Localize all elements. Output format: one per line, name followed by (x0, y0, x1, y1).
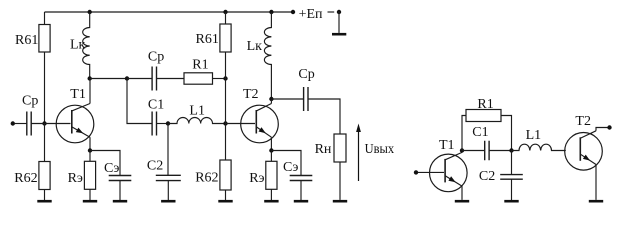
svg-text:Uвых: Uвых (365, 142, 395, 157)
wire: T2 eq emitter to ground (595, 165, 597, 200)
terminal: -Ep negative (337, 10, 341, 14)
junction: rail / Lk2 (269, 10, 273, 14)
wire: R1 to T2 base column (213, 78, 226, 80)
wire: T2 emitter node to Ce2 (271, 151, 301, 176)
wire: C2 node down (167, 124, 169, 176)
junction: T1 eq collector node (460, 148, 464, 152)
svg-text:Cр: Cр (298, 67, 314, 82)
junction: C1/L1/C2 node (166, 121, 170, 125)
wire: R61-2 bottom through base node (225, 52, 227, 160)
transistor T1 (equivalent) (430, 138, 468, 192)
svg-text:L1: L1 (526, 128, 542, 143)
svg-text:T1: T1 (70, 87, 86, 102)
ground (Re stage 2) (264, 189, 278, 201)
capacitor C2 (equivalent) (479, 169, 523, 184)
capacitor Cp (interstage) (148, 50, 164, 91)
capacitor C1 (equivalent) (472, 125, 489, 160)
wire: Cp to T1 base (31, 123, 70, 125)
svg-text:Rэ: Rэ (68, 171, 83, 186)
svg-text:C1: C1 (472, 125, 488, 140)
resistor Re (stage 1) (68, 161, 96, 189)
svg-text:T2: T2 (575, 114, 591, 129)
wire: T1 emitter down to node (89, 137, 91, 150)
ground (R62 stage 1) (37, 190, 51, 202)
wire: node down to C2 eq (511, 151, 513, 175)
svg-text:R61: R61 (196, 32, 219, 47)
wire: T1 eq emitter to ground (461, 186, 463, 200)
wire: T1 eq collector to node (461, 151, 463, 153)
junction: T1 collector node (88, 76, 92, 80)
wire: input to T1 base (equivalent) (418, 171, 444, 173)
capacitor C2 (shunt) (147, 159, 181, 181)
junction: T2 collector node (269, 97, 273, 101)
wire: T1 collector up to node (89, 79, 91, 104)
svg-text:T1: T1 (439, 138, 455, 153)
wire: C1 eq to L1 node (489, 150, 511, 152)
wire: T2 emitter down to node (270, 137, 272, 150)
wire: negative supply stub (328, 11, 335, 13)
ground (supply negative) (332, 33, 346, 36)
ground (Rn load) (333, 200, 347, 203)
resistor Rn (load) (315, 134, 346, 162)
resistor R61 (stage 1) (15, 25, 50, 53)
svg-text:C2: C2 (479, 169, 495, 184)
svg-text:Lк: Lк (247, 39, 263, 54)
capacitor Ce (stage 2) (283, 160, 312, 181)
svg-text:Cэ: Cэ (283, 160, 298, 175)
resistor R1 (interstage) (184, 58, 213, 85)
resistor R61 (stage 2) (196, 24, 232, 52)
ground (R62 stage 2) (218, 190, 232, 201)
wire: Cp out to Rn (308, 99, 340, 134)
ground (T1 equivalent emitter) (455, 200, 469, 203)
junction: base column / R1 (223, 76, 227, 80)
terminal: input (11, 121, 15, 125)
svg-text:R61: R61 (15, 33, 38, 48)
svg-text:Cр: Cр (22, 93, 38, 108)
ground (C2 equivalent) (504, 179, 518, 201)
ground (T2 equivalent emitter) (589, 200, 603, 203)
svg-text:R62: R62 (14, 171, 37, 186)
wire: collector node up to R1 eq (462, 116, 466, 151)
junction: T1 base node (42, 121, 46, 125)
terminal: output (equivalent) (607, 125, 611, 129)
capacitor Cp (output coupling) (298, 67, 314, 111)
inductor Lk (stage 1) (70, 12, 90, 78)
wire: C1 to C2 node (157, 123, 169, 125)
junction: network split node (125, 76, 129, 80)
junction: rail / R61 stage2 (223, 10, 227, 14)
arrow: Uout output voltage (356, 124, 394, 182)
svg-text:Cр: Cр (148, 50, 164, 65)
wire: +Ep supply rail (45, 11, 294, 13)
wire: Cp mid to R1 (157, 78, 185, 80)
wire: split node down to C1 (127, 79, 152, 124)
wire: base column to T2 base (226, 123, 256, 125)
wire: collector node to network split (90, 78, 127, 80)
wire: split node to Cp mid (127, 78, 152, 80)
ground (Ce stage 2) (294, 181, 308, 202)
wire: emitter node to Ce (90, 151, 120, 176)
svg-text:Lк: Lк (70, 38, 86, 53)
transistor T2 (equivalent) (565, 114, 603, 170)
svg-text:Rн: Rн (315, 142, 332, 157)
junction: base column / L1 (223, 121, 227, 125)
svg-text:R1: R1 (477, 97, 493, 112)
svg-text:R1: R1 (192, 58, 208, 73)
junction: L1/C2 node (equivalent) (509, 148, 513, 152)
wire: input terminal to Cp (15, 123, 27, 125)
terminal: input (equivalent circuit) (414, 170, 418, 174)
svg-text:Rэ: Rэ (249, 171, 264, 186)
wire: rail corner into R61 (44, 12, 46, 25)
junction: T1 emitter node (88, 148, 92, 152)
transistor T2 (stage 2) (241, 87, 279, 143)
wire: negative terminal down to ground (338, 12, 340, 33)
wire: R61 bottom to T1 base node (44, 52, 46, 124)
wire: R1 eq to L1 node (501, 116, 512, 151)
svg-text:Cэ: Cэ (104, 161, 119, 176)
wire: T2 emitter node to Re2 (270, 151, 272, 162)
ground (Re stage 1) (83, 189, 97, 201)
wire: T2 collector up to node (270, 99, 272, 104)
wire: collector node to C1 eq (462, 150, 485, 152)
wire: Rn bottom to ground (339, 162, 341, 200)
svg-text:T2: T2 (243, 87, 259, 102)
capacitor Cp (input coupling) (22, 93, 38, 135)
ground (Ce stage 1) (113, 181, 127, 202)
terminal: +Ep positive (291, 10, 295, 14)
transistor T1 (stage 1) (56, 87, 94, 143)
wire: emitter node to Re (89, 151, 91, 162)
junction: rail / Lk1 (88, 10, 92, 14)
svg-text:C1: C1 (148, 98, 164, 113)
wire: T2 eq collector to output (596, 128, 608, 131)
svg-text:+Eп: +Eп (299, 7, 323, 22)
wire: T2 collector node to output Cp (271, 98, 303, 100)
ground (C2) (161, 181, 175, 202)
junction: T2 emitter node (269, 148, 273, 152)
inductor Lk (stage 2) (247, 12, 272, 99)
resistor Re (stage 2) (249, 161, 277, 189)
inductor L1 (equivalent) (512, 128, 566, 151)
inductor L1 (interstage) (168, 104, 226, 124)
capacitor C1 (interstage) (148, 98, 164, 136)
svg-text:C2: C2 (147, 159, 163, 174)
resistor R62 (stage 2) (195, 160, 231, 190)
svg-text:R62: R62 (195, 171, 218, 186)
wire: base node down to R62 (44, 124, 46, 162)
svg-text:L1: L1 (189, 104, 205, 119)
wire: rail to R61 stage2 (225, 12, 227, 24)
resistor R1 (equivalent) (466, 97, 501, 122)
resistor R62 (stage 1) (14, 162, 50, 190)
capacitor Ce (stage 1) (104, 161, 131, 181)
